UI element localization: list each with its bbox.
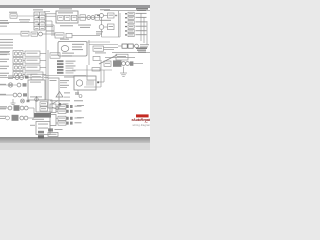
svg-text:wiring diagrams: wiring diagrams bbox=[133, 123, 151, 127]
